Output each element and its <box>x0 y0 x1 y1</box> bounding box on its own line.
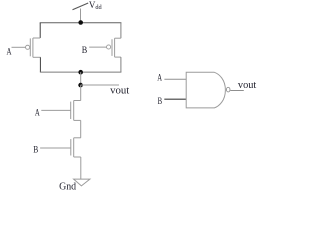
svg-text:B: B <box>33 145 38 156</box>
wire output node rail <box>40 71 122 73</box>
wire NMOS M3 source to NMOS M4 drain <box>80 120 82 137</box>
svg-text:A: A <box>35 107 40 118</box>
NAND gate U1 inversion bubble <box>226 87 230 92</box>
wire output rail down to vout tap <box>80 72 82 85</box>
svg-text:A: A <box>157 73 162 83</box>
wire vout tap to label <box>81 84 119 86</box>
svg-text:Gnd: Gnd <box>59 181 77 192</box>
NAND gate U1 body <box>186 72 225 108</box>
svg-text:A: A <box>7 46 12 57</box>
wire NAND output <box>230 90 244 92</box>
transistor PMOS M1 (input A) <box>26 38 41 57</box>
svg-text:B: B <box>158 96 163 106</box>
wire right rail vertical <box>120 23 122 38</box>
node junction dot at vout tap <box>78 83 83 88</box>
svg-text:vout: vout <box>238 79 256 91</box>
wire PMOS M1 drain down to output rail <box>39 57 41 72</box>
transistor NMOS M3 (input A) <box>71 101 81 121</box>
svg-text:vout: vout <box>110 84 129 96</box>
wire NMOS M4 source to ground <box>80 157 82 179</box>
wire input B to PMOS M2 gate <box>89 46 106 48</box>
transistor NMOS M4 (input B) <box>71 138 81 157</box>
wire vout tap down to NMOS M3 drain <box>80 85 82 101</box>
wire left rail vertical <box>39 23 41 38</box>
wire PMOS M2 drain down to output rail <box>120 57 122 72</box>
wire input B to NMOS M4 gate <box>40 147 71 149</box>
svg-text:Vdd: Vdd <box>89 0 103 11</box>
wire NAND input A <box>164 78 186 80</box>
node junction dot on output rail <box>78 70 83 75</box>
transistor PMOS M2 (input B) <box>107 38 121 57</box>
wire Vdd top rail <box>40 22 122 24</box>
wire input A to PMOS M1 gate <box>12 46 26 48</box>
node junction dot on Vdd rail <box>78 20 83 25</box>
wire input A to NMOS M3 gate <box>41 109 70 111</box>
svg-text:B: B <box>82 45 88 56</box>
ground symbol <box>74 179 90 186</box>
wire NAND input B <box>164 98 186 100</box>
Vdd power symbol <box>73 3 89 22</box>
